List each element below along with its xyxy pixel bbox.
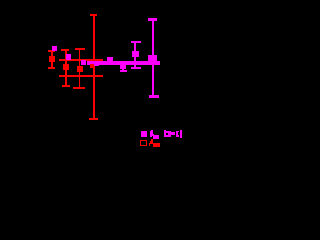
magenta errorbar M9 top cap bbox=[148, 18, 157, 21]
red marker R2 bbox=[63, 64, 69, 70]
magenta marker M9 bbox=[148, 55, 157, 65]
red errorbar R4 tall vertical bbox=[93, 15, 95, 119]
red errorbar R2 vertical bbox=[65, 50, 67, 87]
magenta errorbar M8 vertical bbox=[134, 41, 136, 69]
magenta marker M2 bbox=[66, 54, 71, 59]
red errorbar R3 vertical bbox=[79, 49, 81, 89]
red errorbar R3 top cap bbox=[75, 48, 86, 50]
legend red open square bbox=[140, 140, 147, 147]
magenta marker M8 bbox=[132, 51, 139, 57]
magenta marker M6 bbox=[107, 57, 112, 62]
magenta errorbar M7 vertical bbox=[122, 64, 124, 71]
magenta errorbar M7 bottom cap bbox=[120, 70, 127, 72]
magenta marker M3 bbox=[81, 60, 86, 65]
legend red lambda label (blocky glyph) bbox=[151, 139, 154, 141]
red errorbar R4 bottom cap bbox=[89, 118, 98, 120]
magenta errorbar M8 top cap bbox=[131, 41, 141, 43]
magenta errorbar M9 bottom cap bbox=[149, 95, 159, 98]
red errorbar R2 bottom cap bbox=[62, 85, 70, 87]
magenta thick band bbox=[87, 61, 160, 65]
magenta errorbar M8 bottom cap bbox=[131, 67, 141, 69]
magenta marker M7 bbox=[120, 64, 126, 69]
legend magenta filled square bbox=[141, 131, 147, 137]
red errorbar R1 vertical bbox=[51, 51, 53, 69]
red horizontal line B bbox=[59, 75, 103, 77]
magenta marker M1 bbox=[52, 46, 57, 51]
magenta errorbar M9 tall vertical bbox=[152, 18, 155, 98]
magenta marker M5 bbox=[94, 61, 99, 66]
red errorbar R3 bottom cap bbox=[73, 87, 85, 89]
red marker R1 bbox=[49, 56, 55, 63]
red errorbar R2 top cap bbox=[61, 49, 69, 51]
red errorbar R1 top cap bbox=[48, 50, 56, 52]
legend magenta parenthetical text (blocky) bbox=[164, 130, 166, 138]
red errorbar R4 top cap bbox=[90, 14, 97, 16]
red errorbar R1 bottom cap bbox=[48, 67, 56, 69]
red horizontal line A bbox=[59, 59, 103, 61]
red marker R4 bbox=[90, 64, 95, 68]
red marker R3 bbox=[77, 66, 83, 72]
legend magenta lambda label (blocky glyph) bbox=[151, 130, 153, 131]
